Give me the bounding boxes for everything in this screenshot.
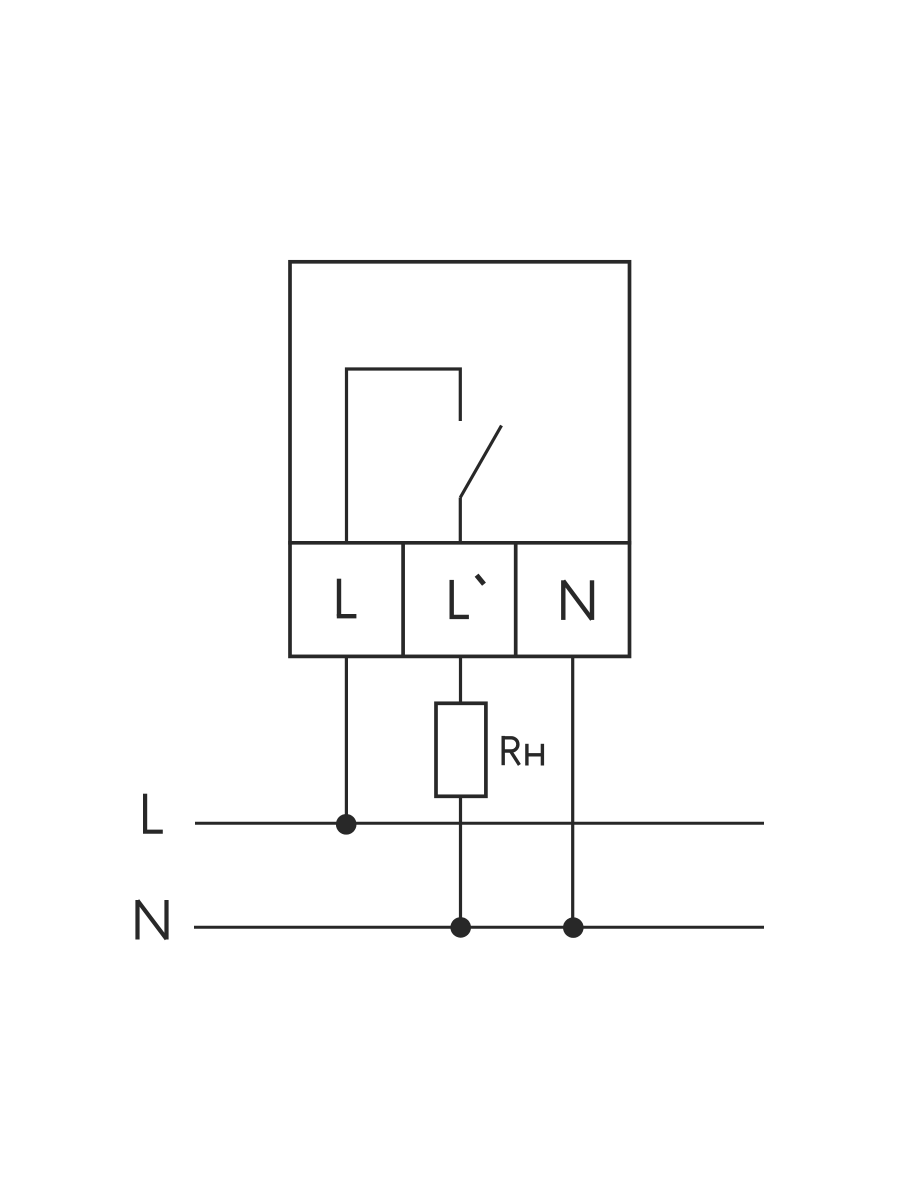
wire: L` terminal down to resistor [459,656,462,703]
terminal label N [563,580,592,620]
wire: N terminal down to N power line [571,656,574,927]
junction dot: resistor branch / N power line [450,917,471,938]
L power line [195,822,764,825]
terminal divider between L` and N [514,543,518,657]
device K1 outline [290,262,630,657]
switch blade (normally-open contact) [460,426,501,498]
wire: L terminal up to switch (left branch) [347,369,461,543]
N power line [194,926,764,929]
terminal strip top line [288,541,631,545]
wire: L terminal down to L power line [345,656,348,823]
junction dot: L terminal / L power line [336,814,357,835]
terminal divider between L and L` [401,543,405,657]
label N (neutral rail) [138,900,167,940]
terminal label L` [450,575,485,617]
label L (phase rail) [143,794,163,832]
terminal label L [337,579,357,617]
label Rн [502,736,543,766]
wire: resistor down to N power line [459,796,462,927]
junction dot: N terminal / N power line [563,917,584,938]
wire: switch to L` terminal [459,498,462,543]
resistor Rн (load) [436,703,486,796]
